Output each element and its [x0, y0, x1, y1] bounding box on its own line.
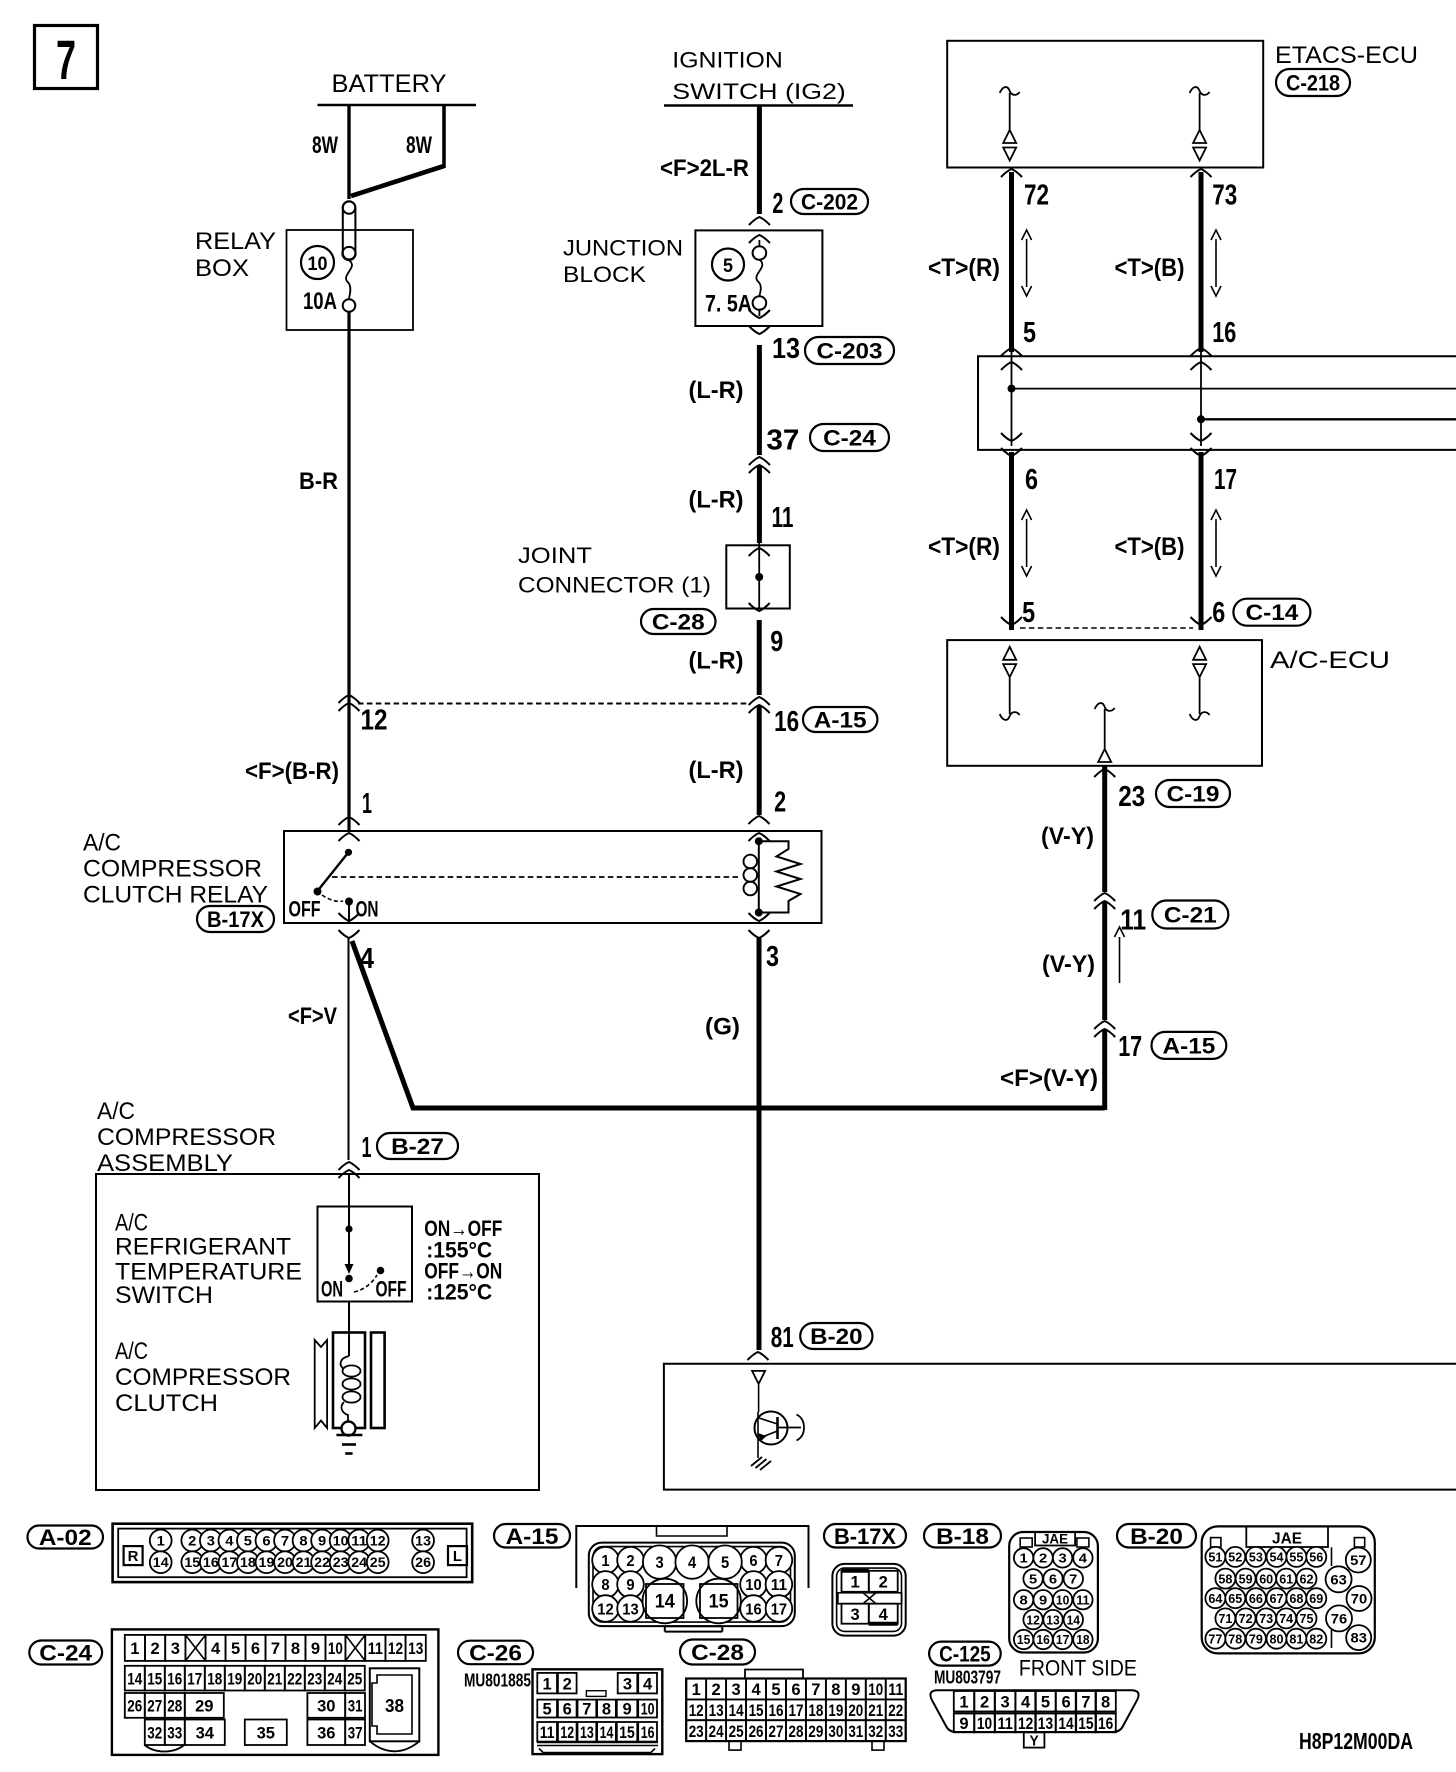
ETACS-ECU box C-218	[947, 41, 1418, 168]
A/C-ECU pin 23 C-19	[1094, 769, 1230, 813]
svg-text:C-21: C-21	[1164, 903, 1217, 928]
ignition switch (IG2)	[664, 48, 853, 106]
svg-text:17: 17	[187, 1669, 202, 1688]
svg-text:MU803797: MU803797	[934, 1668, 1001, 1688]
svg-text:3: 3	[171, 1639, 180, 1658]
svg-text:7: 7	[811, 1680, 820, 1699]
svg-text:3: 3	[207, 1533, 215, 1549]
svg-text:18: 18	[240, 1554, 256, 1570]
svg-text:1: 1	[543, 1674, 552, 1693]
svg-text:51: 51	[1208, 1550, 1222, 1565]
svg-text:15: 15	[749, 1701, 764, 1720]
svg-text:35: 35	[257, 1723, 275, 1742]
svg-text:71: 71	[1218, 1611, 1232, 1626]
svg-text:8: 8	[601, 1577, 609, 1594]
svg-text:57: 57	[1350, 1552, 1367, 1568]
svg-text:18: 18	[1076, 1632, 1089, 1647]
wire (L-R) segment 1	[689, 345, 760, 455]
svg-text:4: 4	[1079, 1551, 1088, 1566]
svg-text:7: 7	[1069, 1571, 1077, 1586]
svg-text:26: 26	[127, 1697, 142, 1716]
svg-text:21: 21	[868, 1701, 883, 1720]
svg-text:4: 4	[879, 1605, 889, 1624]
svg-text:60: 60	[1259, 1571, 1273, 1586]
wire B-R (relay box to clutch relay)	[299, 312, 349, 830]
svg-text:6: 6	[1212, 597, 1225, 629]
svg-text:<T>(B): <T>(B)	[1115, 533, 1185, 561]
svg-text:82: 82	[1309, 1631, 1323, 1646]
svg-text:COMPRESSOR: COMPRESSOR	[83, 856, 262, 883]
svg-text:25: 25	[729, 1722, 744, 1741]
inline connector pin 12 (dashed tie)	[339, 695, 388, 737]
svg-text:2: 2	[626, 1553, 634, 1570]
svg-text:<F>(B-R): <F>(B-R)	[245, 758, 339, 785]
svg-text:34: 34	[196, 1723, 215, 1742]
svg-text:5: 5	[1041, 1692, 1050, 1711]
svg-text:16: 16	[1036, 1632, 1049, 1647]
svg-text:C-218: C-218	[1286, 71, 1340, 96]
relay coil	[744, 837, 763, 916]
svg-text:18: 18	[808, 1701, 823, 1720]
svg-text:4: 4	[751, 1680, 761, 1699]
svg-text:26: 26	[415, 1554, 431, 1570]
svg-text:70: 70	[1351, 1591, 1368, 1607]
svg-text:6: 6	[251, 1639, 260, 1658]
svg-text:38: 38	[385, 1696, 404, 1716]
svg-text:10: 10	[745, 1577, 761, 1594]
svg-text:11: 11	[351, 1533, 367, 1549]
svg-text:12: 12	[1018, 1714, 1033, 1733]
svg-text:23: 23	[307, 1669, 322, 1688]
svg-text:A/C: A/C	[115, 1338, 148, 1365]
svg-text:28: 28	[788, 1722, 803, 1741]
svg-text:22: 22	[287, 1669, 302, 1688]
svg-text:9: 9	[851, 1680, 860, 1699]
svg-text:61: 61	[1279, 1571, 1293, 1586]
svg-text:12: 12	[597, 1601, 613, 1618]
badge B-18	[924, 1524, 1001, 1549]
svg-text:53: 53	[1249, 1550, 1263, 1565]
svg-text:B-17X: B-17X	[207, 907, 264, 932]
svg-text:C-26: C-26	[469, 1640, 522, 1665]
svg-text:16: 16	[774, 706, 799, 738]
svg-text:<F>(V-Y): <F>(V-Y)	[1000, 1065, 1098, 1092]
wire label <F>(B-R)	[245, 758, 339, 785]
inline connector pin 16 A-15	[749, 697, 878, 738]
svg-text:24: 24	[351, 1554, 367, 1570]
svg-text:24: 24	[709, 1722, 724, 1741]
svg-text:27: 27	[769, 1722, 784, 1741]
svg-text:75: 75	[1300, 1611, 1314, 1626]
svg-text:L: L	[453, 1548, 462, 1565]
svg-text:C-28: C-28	[691, 1640, 744, 1665]
connector B-18 pinout	[1009, 1531, 1098, 1653]
svg-text:R: R	[128, 1548, 139, 1565]
svg-text:2: 2	[1039, 1551, 1047, 1566]
svg-text:11: 11	[771, 1577, 787, 1594]
A/C-ECU internal driver output	[1095, 703, 1115, 762]
svg-text:2: 2	[879, 1572, 888, 1591]
svg-text:A/C: A/C	[83, 830, 121, 857]
relay pin 1	[339, 788, 373, 841]
ETACS pin 73	[1191, 169, 1238, 212]
svg-text:22: 22	[888, 1701, 903, 1720]
svg-text:7: 7	[1081, 1692, 1090, 1711]
svg-text:31: 31	[848, 1722, 863, 1741]
svg-text:C-202: C-202	[801, 190, 858, 215]
svg-text:6: 6	[1049, 1571, 1057, 1586]
A/C-ECU internal pin left	[1000, 647, 1020, 720]
battery B+	[318, 70, 477, 105]
relay pin 3	[749, 913, 780, 973]
wire (V-Y) segment 1	[1041, 766, 1105, 892]
svg-text:COMPRESSOR: COMPRESSOR	[115, 1364, 291, 1391]
svg-text:15: 15	[709, 1592, 729, 1613]
svg-text:FRONT SIDE: FRONT SIDE	[1019, 1656, 1137, 1681]
svg-text:27: 27	[147, 1697, 162, 1716]
svg-text:24: 24	[327, 1669, 342, 1688]
svg-text:B-20: B-20	[1130, 1524, 1183, 1549]
svg-text:13: 13	[408, 1639, 423, 1658]
inline connector pin 37 C-24	[749, 424, 889, 473]
svg-text:9: 9	[770, 626, 783, 658]
fan control input pin	[752, 1371, 765, 1412]
svg-text:REFRIGERANT: REFRIGERANT	[115, 1234, 291, 1261]
svg-text:(L-R): (L-R)	[689, 757, 744, 784]
svg-text:72: 72	[1239, 1611, 1253, 1626]
svg-text:13: 13	[580, 1723, 594, 1742]
svg-text:12: 12	[388, 1639, 403, 1658]
svg-text:(L-R): (L-R)	[689, 377, 744, 404]
svg-text:IGNITION: IGNITION	[672, 48, 783, 73]
svg-text:5: 5	[1023, 317, 1036, 349]
svg-text:29: 29	[808, 1722, 823, 1741]
badge C-26	[458, 1640, 533, 1665]
svg-text:ETACS-ECU: ETACS-ECU	[1275, 42, 1418, 69]
wire <T>(B) upper	[1115, 172, 1222, 352]
fuse 5 (7.5A)	[705, 235, 770, 318]
svg-text:7: 7	[582, 1700, 591, 1719]
wire (L-R) segment 3, pin 9	[689, 620, 784, 695]
svg-text:16: 16	[1212, 317, 1236, 349]
svg-text:10: 10	[1056, 1592, 1069, 1607]
junction box left branch	[1001, 348, 1456, 456]
svg-text:5: 5	[231, 1639, 240, 1658]
svg-text:9: 9	[622, 1700, 631, 1719]
svg-text:56: 56	[1309, 1550, 1323, 1565]
svg-text:B-27: B-27	[391, 1134, 444, 1159]
badge C-28 (pinout)	[680, 1640, 755, 1666]
relay pin 2	[749, 787, 787, 841]
svg-text:11: 11	[1120, 905, 1146, 937]
svg-text:30: 30	[317, 1697, 335, 1716]
svg-text:1: 1	[601, 1553, 609, 1570]
connector pin 1 B-27	[339, 1132, 459, 1178]
fusible link (battery)	[342, 201, 355, 312]
svg-text:A/C: A/C	[115, 1210, 148, 1237]
svg-text:63: 63	[1330, 1571, 1347, 1587]
svg-text:8: 8	[602, 1700, 611, 1719]
connector C-26 pinout	[464, 1669, 662, 1754]
A/C compressor assembly box	[96, 1098, 539, 1490]
svg-text:10: 10	[333, 1533, 349, 1549]
svg-text:68: 68	[1289, 1591, 1303, 1606]
svg-text:22: 22	[314, 1554, 330, 1570]
svg-text:4: 4	[688, 1553, 697, 1572]
badge A-15	[494, 1524, 570, 1549]
connector A-15 pinout	[576, 1526, 808, 1632]
svg-text:ON: ON	[321, 1277, 343, 1302]
svg-text:6: 6	[749, 1553, 757, 1570]
ETACS internal driver left	[1000, 87, 1020, 160]
svg-text:23: 23	[1118, 781, 1145, 813]
svg-text:1: 1	[157, 1533, 165, 1549]
svg-text:19: 19	[828, 1701, 843, 1720]
svg-text:14: 14	[1058, 1714, 1074, 1733]
svg-text:4: 4	[643, 1674, 653, 1693]
svg-text:C-203: C-203	[817, 339, 883, 364]
ground (compressor clutch)	[336, 1435, 362, 1454]
transistor (fan control)	[755, 1412, 805, 1459]
svg-text:28: 28	[167, 1697, 182, 1716]
drawing number H8P12M00DA	[1299, 1728, 1413, 1754]
svg-text:19: 19	[227, 1669, 242, 1688]
svg-text:<F>V: <F>V	[288, 1003, 337, 1030]
svg-text:<T>(B): <T>(B)	[1115, 254, 1185, 282]
connector C-28 pinout	[686, 1670, 906, 1751]
page number 7	[35, 26, 98, 92]
svg-text:15: 15	[184, 1554, 200, 1570]
svg-text:17: 17	[1118, 1031, 1142, 1063]
svg-text:MU801885: MU801885	[464, 1671, 531, 1691]
svg-text:1: 1	[1020, 1551, 1028, 1566]
A/C-ECU internal pin right	[1190, 647, 1210, 720]
svg-text:11: 11	[772, 502, 794, 534]
svg-text:83: 83	[1351, 1630, 1368, 1646]
svg-text:21: 21	[296, 1554, 312, 1570]
svg-text:14: 14	[729, 1701, 744, 1720]
svg-text:58: 58	[1218, 1571, 1232, 1586]
svg-text:1: 1	[362, 788, 372, 820]
svg-text:11: 11	[368, 1639, 383, 1658]
svg-text:23: 23	[333, 1554, 349, 1570]
badge B-17X	[197, 906, 274, 932]
svg-text:16: 16	[769, 1701, 784, 1720]
inline connector pin 17 A-15	[1094, 1021, 1226, 1063]
badge C-125	[929, 1642, 1001, 1667]
badge B-17X	[824, 1524, 906, 1549]
svg-text:59: 59	[1239, 1571, 1253, 1586]
svg-text:6: 6	[262, 1533, 270, 1549]
svg-text:COMPRESSOR: COMPRESSOR	[97, 1124, 276, 1151]
svg-text:11: 11	[1076, 1592, 1089, 1607]
ETACS pin 72	[1001, 169, 1049, 212]
svg-text:C-125: C-125	[939, 1642, 991, 1667]
svg-text:8: 8	[291, 1639, 300, 1658]
wire (L-R) segment 2	[689, 465, 794, 543]
svg-text:16: 16	[167, 1669, 182, 1688]
connector pin 2 C-202	[749, 188, 868, 225]
svg-text:CLUTCH: CLUTCH	[115, 1390, 218, 1417]
svg-text:81: 81	[1289, 1631, 1303, 1646]
svg-text:JAE: JAE	[1042, 1531, 1068, 1547]
svg-text:36: 36	[317, 1723, 335, 1742]
svg-text:18: 18	[207, 1669, 222, 1688]
svg-text:2: 2	[772, 188, 783, 220]
svg-text:5: 5	[1022, 597, 1035, 629]
svg-text:33: 33	[888, 1722, 903, 1741]
svg-text:76: 76	[1331, 1610, 1348, 1626]
svg-text:8W: 8W	[406, 132, 432, 159]
inline connector pin 11 C-21	[1094, 893, 1228, 937]
svg-text:<F>2L-R: <F>2L-R	[660, 155, 749, 182]
badge C-218	[1276, 69, 1350, 96]
svg-text:72: 72	[1024, 180, 1049, 212]
svg-text:32: 32	[147, 1723, 162, 1742]
svg-text:5: 5	[721, 1553, 729, 1572]
svg-text:BOX: BOX	[195, 255, 249, 282]
svg-text:8: 8	[831, 1680, 840, 1699]
svg-text:11: 11	[540, 1723, 555, 1742]
svg-text:52: 52	[1228, 1550, 1242, 1565]
connector B-20 pinout	[1202, 1526, 1375, 1653]
svg-text:1: 1	[130, 1639, 139, 1658]
svg-text:C-24: C-24	[39, 1641, 93, 1666]
svg-text:14: 14	[153, 1554, 169, 1570]
chassis ground (fan control)	[751, 1457, 771, 1470]
relay B-17X A/C compressor clutch relay box	[83, 830, 822, 924]
svg-text:A/C-ECU: A/C-ECU	[1270, 647, 1390, 674]
A/C-ECU pin 5	[1001, 597, 1035, 629]
svg-text:5: 5	[723, 256, 733, 277]
svg-text:ON: ON	[356, 897, 379, 922]
pin 16 upper	[1212, 317, 1236, 349]
svg-text:2: 2	[774, 787, 786, 819]
svg-text:6: 6	[791, 1680, 800, 1699]
svg-text:C-28: C-28	[652, 610, 705, 635]
svg-text:5: 5	[244, 1533, 252, 1549]
pin 17 lower	[1214, 464, 1237, 496]
junction box right branch	[1191, 348, 1456, 456]
svg-text:37: 37	[766, 424, 799, 456]
svg-text:31: 31	[348, 1697, 363, 1716]
svg-text:(V-Y): (V-Y)	[1041, 823, 1094, 850]
badge C-28	[641, 609, 716, 635]
svg-text:3: 3	[731, 1680, 740, 1699]
svg-text:B-20: B-20	[810, 1324, 862, 1349]
svg-text:79: 79	[1249, 1631, 1263, 1646]
svg-text:62: 62	[1300, 1571, 1314, 1586]
badge C-24	[29, 1641, 102, 1666]
svg-text:10: 10	[977, 1714, 992, 1733]
pin 6 lower	[1025, 464, 1038, 496]
temperature switch value labels	[424, 1216, 502, 1305]
svg-text:B-17X: B-17X	[834, 1524, 896, 1549]
svg-text:2: 2	[712, 1680, 721, 1699]
svg-text:BATTERY: BATTERY	[332, 70, 447, 98]
svg-text:7. 5A: 7. 5A	[705, 291, 752, 318]
svg-text:13: 13	[1038, 1714, 1053, 1733]
svg-text:C-19: C-19	[1167, 782, 1220, 807]
svg-text:OFF: OFF	[376, 1277, 407, 1302]
svg-text:12: 12	[370, 1533, 386, 1549]
svg-text:CONNECTOR (1): CONNECTOR (1)	[518, 572, 711, 597]
svg-text:32: 32	[868, 1722, 883, 1741]
svg-text:4: 4	[225, 1533, 233, 1549]
svg-text:3: 3	[1059, 1551, 1067, 1566]
svg-text:16: 16	[1098, 1714, 1113, 1733]
connector B-17X pinout	[832, 1564, 905, 1636]
svg-text:13: 13	[709, 1701, 724, 1720]
svg-text:2: 2	[188, 1533, 196, 1549]
svg-text:16: 16	[745, 1601, 761, 1618]
svg-text:2: 2	[151, 1639, 160, 1658]
svg-text:(L-R): (L-R)	[689, 648, 744, 675]
A/C-ECU box	[947, 640, 1390, 766]
svg-text:10: 10	[328, 1639, 343, 1658]
svg-text:H8P12M00DA: H8P12M00DA	[1299, 1728, 1413, 1754]
svg-text:A-15: A-15	[506, 1524, 559, 1549]
svg-text:69: 69	[1309, 1591, 1323, 1606]
svg-text::125°C: :125°C	[426, 1280, 492, 1305]
svg-text:55: 55	[1289, 1550, 1303, 1565]
svg-text:20: 20	[277, 1554, 293, 1570]
svg-text:JUNCTION: JUNCTION	[563, 235, 683, 260]
svg-text:9: 9	[626, 1577, 634, 1594]
svg-text:14: 14	[127, 1669, 142, 1688]
svg-text:25: 25	[347, 1669, 362, 1688]
svg-text:11: 11	[998, 1714, 1013, 1733]
connector C-24 pinout	[112, 1629, 439, 1755]
svg-text:33: 33	[167, 1723, 182, 1742]
condenser fan control unit box	[664, 1364, 1456, 1490]
svg-text:15: 15	[1017, 1632, 1030, 1647]
relay coil parallel resistor	[759, 841, 801, 912]
svg-text:RELAY: RELAY	[195, 228, 276, 255]
svg-text:1: 1	[692, 1680, 701, 1699]
svg-text:17: 17	[788, 1701, 803, 1720]
direction arrow (V-Y)	[1115, 927, 1125, 983]
svg-text:7: 7	[271, 1639, 280, 1658]
svg-text:77: 77	[1208, 1631, 1222, 1646]
svg-text:81: 81	[771, 1322, 794, 1354]
relay pin 4	[339, 913, 375, 975]
svg-text:JAE: JAE	[1272, 1531, 1302, 1548]
svg-text:17: 17	[1056, 1632, 1069, 1647]
wire <T>(R) upper	[928, 172, 1032, 352]
svg-text:21: 21	[267, 1669, 282, 1688]
svg-text:8W: 8W	[312, 132, 338, 159]
wire <F>V (relay 4 to junction with V-Y)	[288, 941, 1105, 1108]
svg-text:20: 20	[247, 1669, 262, 1688]
svg-text:3: 3	[766, 941, 779, 973]
connector pin 13 C-203	[749, 326, 894, 365]
svg-text:8: 8	[1101, 1692, 1110, 1711]
wire (G) relay 3 to condenser fan control	[705, 938, 759, 1350]
svg-text:65: 65	[1228, 1591, 1242, 1606]
intermediate junction box	[978, 356, 1456, 450]
svg-text:6: 6	[1061, 1692, 1070, 1711]
svg-text:66: 66	[1249, 1591, 1263, 1606]
svg-text:67: 67	[1270, 1591, 1284, 1606]
svg-text:11: 11	[888, 1680, 903, 1699]
svg-text:73: 73	[1212, 180, 1237, 212]
svg-text:54: 54	[1270, 1550, 1285, 1565]
svg-text:3: 3	[851, 1605, 860, 1624]
svg-text:19: 19	[259, 1554, 275, 1570]
svg-text:12: 12	[560, 1723, 574, 1742]
svg-text:C-24: C-24	[823, 426, 877, 451]
